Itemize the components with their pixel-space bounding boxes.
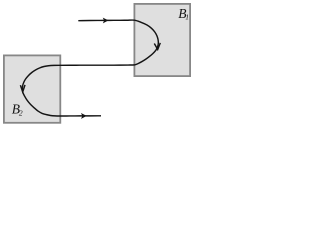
arrowhead inside B2 (20, 85, 25, 92)
arrowhead on input line (103, 17, 109, 23)
wire: connector from B1 to B2 (61, 64, 135, 66)
svg-text:2: 2 (19, 109, 23, 118)
wire: loop inside B1 (135, 20, 159, 65)
wire: input line into B1 (78, 19, 134, 22)
arrowhead on output line (81, 113, 87, 119)
wire: loop inside B2 (22, 65, 61, 116)
block B2 box (4, 55, 60, 122)
wire: output line from B2 (60, 115, 101, 117)
svg-text:1: 1 (185, 13, 189, 22)
block B1 box (134, 4, 190, 76)
arrowhead inside B1 (154, 43, 160, 50)
